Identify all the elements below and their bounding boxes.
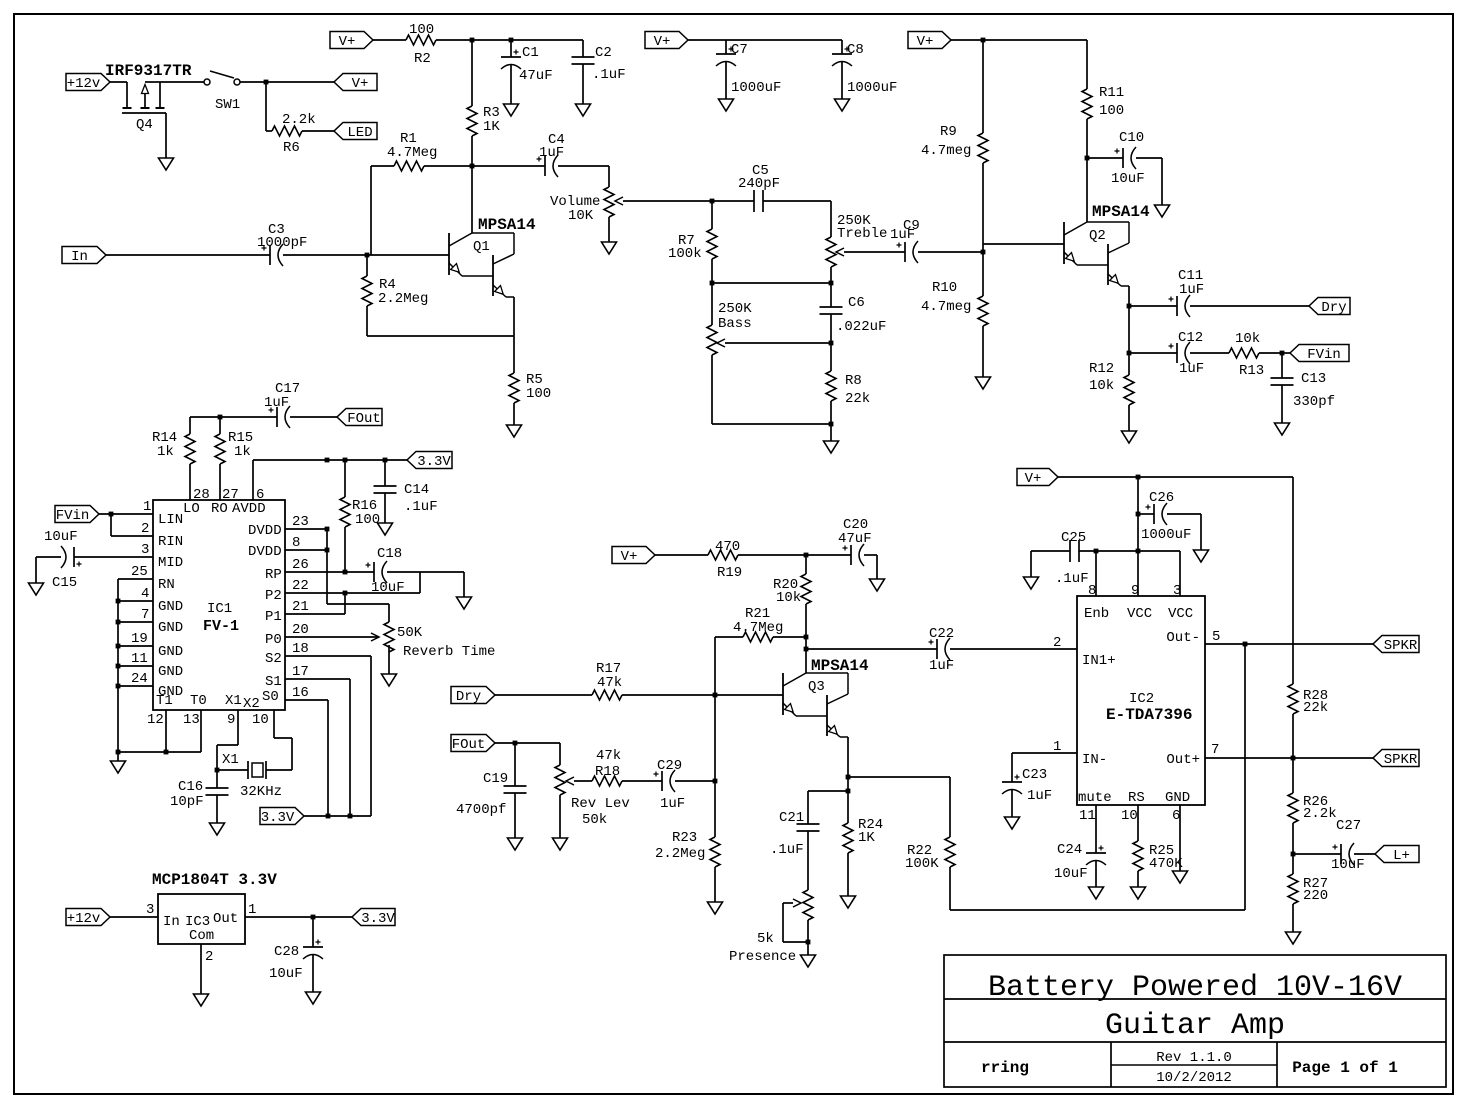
wire <box>118 751 201 753</box>
svg-text:100k: 100k <box>668 246 702 262</box>
net tag In <box>62 247 106 264</box>
wire <box>841 62 843 99</box>
junction <box>1291 756 1296 761</box>
svg-text:3.3V: 3.3V <box>261 810 295 826</box>
wire <box>830 283 832 307</box>
junction <box>1094 549 1099 554</box>
potentiometer Volume <box>604 187 614 217</box>
svg-text:5k: 5k <box>757 931 774 947</box>
wire <box>240 81 334 83</box>
svg-text:1k: 1k <box>157 444 174 460</box>
wire <box>807 920 809 942</box>
junction <box>325 458 330 463</box>
svg-text:4.7Meg: 4.7Meg <box>387 145 437 161</box>
svg-text:100K: 100K <box>905 856 939 872</box>
svg-text:Presence: Presence <box>729 949 796 965</box>
resistor R28 <box>1288 684 1298 714</box>
svg-text:8: 8 <box>1088 583 1096 599</box>
resistor R2 <box>406 35 436 45</box>
wire <box>712 282 831 284</box>
resistor R15 <box>215 434 225 464</box>
svg-text:.1uF: .1uF <box>404 499 438 515</box>
wire <box>830 267 832 283</box>
pin 20 <box>285 636 379 638</box>
svg-text:220: 220 <box>1303 888 1328 904</box>
ground <box>111 761 126 773</box>
svg-text:SPKR: SPKR <box>1384 638 1418 654</box>
svg-text:FV-1: FV-1 <box>203 618 239 635</box>
pin 3 <box>1179 551 1181 596</box>
svg-text:1uF: 1uF <box>890 227 915 243</box>
wire <box>1292 904 1294 932</box>
svg-text:2: 2 <box>141 521 149 537</box>
net tag V+ <box>334 74 377 91</box>
svg-text:MID: MID <box>158 555 183 571</box>
svg-text:8: 8 <box>292 535 300 551</box>
net tag V+ <box>908 32 951 49</box>
svg-text:1000pF: 1000pF <box>257 235 307 251</box>
junction <box>713 779 718 784</box>
junction <box>1280 351 1285 356</box>
svg-text:Q3: Q3 <box>808 679 825 695</box>
junction <box>164 750 169 755</box>
wire <box>1137 871 1139 887</box>
wire <box>1282 352 1298 354</box>
wire <box>714 781 716 837</box>
wire <box>384 460 386 486</box>
svg-text:Com: Com <box>189 928 214 944</box>
pin 27 <box>219 464 221 500</box>
wire <box>245 916 356 918</box>
wire <box>918 251 983 253</box>
svg-text:C25: C25 <box>1061 530 1086 546</box>
net tag FVin <box>1290 345 1349 362</box>
wire <box>371 165 394 167</box>
svg-text:C22: C22 <box>929 626 954 642</box>
wire <box>783 902 793 904</box>
capacitor C3 <box>269 245 271 265</box>
wire <box>876 555 878 579</box>
junction <box>326 814 331 819</box>
junction <box>829 422 834 427</box>
wire <box>608 217 610 242</box>
wire <box>326 529 328 604</box>
capacitor C11 <box>1176 296 1178 316</box>
capacitor C27 <box>1340 844 1342 864</box>
ground <box>1155 205 1170 217</box>
svg-text:+12v: +12v <box>67 76 101 92</box>
wire <box>841 40 843 54</box>
wire <box>495 694 592 696</box>
resistor R11 <box>1082 89 1092 119</box>
junction <box>311 915 316 920</box>
wire <box>1011 753 1013 782</box>
wire <box>274 737 292 739</box>
svg-text:C29: C29 <box>657 758 682 774</box>
svg-text:11: 11 <box>131 651 148 667</box>
wire <box>110 916 158 918</box>
net tag V+ <box>612 547 655 564</box>
svg-text:3: 3 <box>146 902 154 918</box>
wire <box>327 603 389 605</box>
svg-text:4700pf: 4700pf <box>456 802 506 818</box>
pin 26 <box>285 571 374 573</box>
svg-text:Dry: Dry <box>1321 300 1346 316</box>
svg-text:2.2k: 2.2k <box>1303 806 1337 822</box>
potentiometer Treble <box>826 237 836 267</box>
wire <box>582 40 584 57</box>
wire <box>1200 514 1202 550</box>
ground <box>508 838 523 850</box>
junction <box>383 458 388 463</box>
svg-text:9: 9 <box>227 712 235 728</box>
wire <box>608 166 610 187</box>
transistor Q3 <box>782 673 784 715</box>
junction <box>218 415 223 420</box>
wire <box>1190 305 1309 307</box>
wire <box>725 342 831 344</box>
svg-text:C23: C23 <box>1022 767 1047 783</box>
wire <box>74 556 153 558</box>
svg-text:9: 9 <box>1131 583 1139 599</box>
wire <box>688 39 842 41</box>
wire <box>513 336 515 373</box>
ground <box>576 104 591 116</box>
svg-text:IN1+: IN1+ <box>1082 653 1116 669</box>
junction <box>804 647 809 652</box>
svg-text:10k: 10k <box>776 590 801 606</box>
svg-text:rring: rring <box>981 1059 1029 1077</box>
junction <box>325 527 330 532</box>
svg-text:L+: L+ <box>1393 848 1410 864</box>
junction <box>116 664 121 669</box>
junction <box>215 768 220 773</box>
wire <box>806 554 851 556</box>
junction <box>846 789 851 794</box>
ground <box>824 441 839 453</box>
wire <box>291 738 293 770</box>
wire <box>1086 119 1088 158</box>
svg-text:VCC: VCC <box>1168 606 1193 622</box>
wire <box>1129 305 1177 307</box>
svg-text:Q4: Q4 <box>136 117 153 133</box>
svg-text:3: 3 <box>141 542 149 558</box>
wire <box>582 64 584 104</box>
net tag +12v <box>66 909 110 926</box>
ground <box>210 823 225 835</box>
wire <box>714 637 716 781</box>
wire <box>290 416 337 418</box>
svg-text:Q2: Q2 <box>1089 228 1106 244</box>
svg-text:Out: Out <box>213 911 238 927</box>
svg-text:.1uF: .1uF <box>1055 571 1089 587</box>
wire <box>725 40 727 54</box>
svg-text:V+: V+ <box>654 34 671 50</box>
wire <box>1095 861 1097 887</box>
svg-text:IN-: IN- <box>1082 752 1107 768</box>
pin 17 <box>285 678 350 680</box>
wire <box>805 604 807 637</box>
wire <box>1012 752 1077 754</box>
svg-text:4.7meg: 4.7meg <box>921 299 971 315</box>
svg-text:7: 7 <box>1211 742 1219 758</box>
pin 28 <box>189 464 191 500</box>
svg-text:470: 470 <box>715 539 740 555</box>
svg-text:X1: X1 <box>225 693 242 709</box>
svg-text:Treble: Treble <box>837 226 887 242</box>
svg-text:LO: LO <box>183 501 200 517</box>
svg-text:Reverb Time: Reverb Time <box>403 644 495 660</box>
svg-text:3: 3 <box>1173 583 1181 599</box>
junction <box>116 750 121 755</box>
wire <box>1167 513 1201 515</box>
svg-text:4.7Meg: 4.7Meg <box>733 620 783 636</box>
wire <box>219 417 221 434</box>
net tag SPKR <box>1373 636 1419 653</box>
svg-text:2.2Meg: 2.2Meg <box>378 291 428 307</box>
svg-text:16: 16 <box>292 685 309 701</box>
wire <box>805 637 807 673</box>
wire <box>344 593 346 614</box>
resistor R18 <box>592 776 622 786</box>
net tag 3.3V <box>260 808 304 825</box>
net tag FVin <box>55 506 99 523</box>
junction <box>116 644 121 649</box>
ground <box>719 99 734 111</box>
pin 23 <box>285 528 327 530</box>
wire <box>1136 157 1162 159</box>
wire <box>623 200 711 202</box>
wire <box>495 742 560 744</box>
wire <box>118 685 153 687</box>
svg-text:R13: R13 <box>1239 363 1264 379</box>
wire <box>1161 158 1163 205</box>
capacitor C20 <box>850 545 852 565</box>
resistor R5 <box>509 373 519 403</box>
junction <box>470 164 475 169</box>
svg-text:MPSA14: MPSA14 <box>1092 203 1150 221</box>
resistor R23 <box>710 837 720 867</box>
wire <box>559 743 561 765</box>
pin 12 <box>165 710 167 752</box>
wire <box>266 130 272 132</box>
svg-text:21: 21 <box>292 599 309 615</box>
wire <box>1128 353 1130 375</box>
wire <box>349 679 351 816</box>
wire <box>712 423 831 425</box>
wire <box>1030 551 1032 577</box>
junction <box>470 38 475 43</box>
svg-text:3.3V: 3.3V <box>417 454 451 470</box>
svg-text:T0: T0 <box>190 693 207 709</box>
svg-text:GND: GND <box>158 664 183 680</box>
svg-text:50K: 50K <box>397 625 423 641</box>
pin 22 <box>285 592 420 594</box>
resistor R7 <box>707 229 717 259</box>
svg-text:1uF: 1uF <box>1179 361 1204 377</box>
wire <box>655 554 708 556</box>
ground <box>507 425 522 437</box>
wire <box>111 535 153 537</box>
junction <box>1127 351 1132 356</box>
resistor R27 <box>1288 874 1298 904</box>
svg-text:R18: R18 <box>595 764 620 780</box>
svg-text:R6: R6 <box>283 140 300 156</box>
wire <box>302 130 334 132</box>
junction <box>804 635 809 640</box>
svg-text:V+: V+ <box>917 34 934 50</box>
svg-text:47k: 47k <box>597 675 622 691</box>
svg-text:.1uF: .1uF <box>770 842 804 858</box>
svg-text:32KHz: 32KHz <box>240 784 282 800</box>
svg-text:4: 4 <box>141 586 149 602</box>
ground <box>602 242 617 254</box>
svg-text:10uF: 10uF <box>1331 857 1365 873</box>
svg-text:10uF: 10uF <box>1111 171 1145 187</box>
wire <box>622 694 783 696</box>
svg-text:1uF: 1uF <box>1179 282 1204 298</box>
svg-text:23: 23 <box>292 514 309 530</box>
svg-text:C15: C15 <box>52 575 77 591</box>
wire <box>370 656 372 816</box>
ground <box>504 104 519 116</box>
wire <box>1244 644 1246 910</box>
svg-text:S0: S0 <box>262 689 279 705</box>
ground <box>835 99 850 111</box>
wire <box>1292 854 1294 874</box>
svg-text:SPKR: SPKR <box>1384 752 1418 768</box>
wire <box>782 903 784 942</box>
wire <box>118 645 153 647</box>
wire <box>1354 853 1375 855</box>
svg-text:P2: P2 <box>265 588 282 604</box>
svg-text:24: 24 <box>131 671 148 687</box>
svg-text:10k: 10k <box>1089 378 1114 394</box>
junction <box>348 814 353 819</box>
svg-text:1000uF: 1000uF <box>731 80 781 96</box>
resistor R21 <box>743 632 773 642</box>
svg-text:2: 2 <box>205 949 213 965</box>
svg-text:1uF: 1uF <box>929 658 954 674</box>
svg-text:330pf: 330pf <box>1293 394 1335 410</box>
capacitor C28 <box>303 946 323 948</box>
capacitor C22 <box>936 639 938 659</box>
wire <box>763 200 831 202</box>
svg-text:In: In <box>71 249 88 265</box>
svg-text:R12: R12 <box>1089 361 1114 377</box>
ground <box>1089 887 1104 899</box>
wire <box>370 166 372 255</box>
wire <box>35 557 37 583</box>
wire <box>189 417 191 434</box>
wire <box>1128 306 1130 353</box>
IC U1 FV-1 box <box>153 500 285 710</box>
IC U2 E-TDA7396 box <box>1077 596 1205 805</box>
svg-text:C16: C16 <box>178 779 203 795</box>
wire <box>344 527 346 572</box>
wire <box>711 259 713 283</box>
resistor R16 <box>340 497 350 527</box>
svg-text:Q1: Q1 <box>473 239 490 255</box>
wire <box>216 795 218 823</box>
wire <box>1205 757 1373 759</box>
junction <box>325 548 330 553</box>
wire <box>773 636 806 638</box>
capacitor C19 <box>504 785 527 787</box>
wire <box>1079 550 1180 552</box>
svg-text:1uF: 1uF <box>1027 788 1052 804</box>
svg-text:SW1: SW1 <box>215 97 240 113</box>
wire <box>118 621 153 623</box>
pin 9 <box>1137 551 1139 596</box>
pin 9 <box>237 710 239 745</box>
svg-text:1000uF: 1000uF <box>1141 527 1191 543</box>
wire <box>384 493 386 523</box>
svg-text:1uF: 1uF <box>264 395 289 411</box>
svg-text:C12: C12 <box>1178 330 1203 346</box>
transistor Q4 <box>126 82 128 108</box>
junction <box>365 253 370 258</box>
wire <box>847 737 849 791</box>
capacitor C5 <box>753 190 755 212</box>
svg-text:1000uF: 1000uF <box>847 80 897 96</box>
svg-text:Out-: Out- <box>1166 630 1200 646</box>
resistor R10 <box>978 296 988 326</box>
resistor R26 <box>1288 793 1298 823</box>
svg-text:22k: 22k <box>845 391 870 407</box>
resistor R19 <box>708 550 738 560</box>
capacitor C12 <box>1176 343 1178 363</box>
svg-text:240pF: 240pF <box>738 176 780 192</box>
capacitor C24 <box>1086 852 1106 854</box>
svg-text:S2: S2 <box>265 651 282 667</box>
svg-text:1: 1 <box>143 499 151 515</box>
svg-text:GND: GND <box>158 644 183 660</box>
svg-text:GND: GND <box>1165 790 1190 806</box>
resistor R1 <box>394 161 424 171</box>
wire <box>982 163 984 296</box>
svg-text:Battery Powered 10V-16V: Battery Powered 10V-16V <box>988 971 1402 1005</box>
resistor R6 <box>272 126 302 136</box>
svg-text:IC2: IC2 <box>1129 691 1154 707</box>
wire <box>388 604 390 622</box>
wire <box>808 790 848 792</box>
svg-text:R9: R9 <box>940 124 957 140</box>
svg-text:250K: 250K <box>718 301 752 317</box>
svg-text:R8: R8 <box>845 373 862 389</box>
svg-text:6: 6 <box>1172 808 1180 824</box>
junction <box>109 512 114 517</box>
svg-text:T1: T1 <box>156 693 173 709</box>
junction <box>509 38 514 43</box>
svg-text:Rev 1.1.0: Rev 1.1.0 <box>1156 1050 1232 1066</box>
wire <box>110 514 112 536</box>
wire <box>711 355 713 424</box>
wire <box>1292 823 1294 854</box>
ground <box>382 674 397 686</box>
transistor Q1 <box>448 233 450 275</box>
ground <box>378 523 393 535</box>
wire <box>327 700 329 816</box>
wire <box>807 942 809 955</box>
svg-text:C14: C14 <box>404 482 429 498</box>
junction <box>713 693 718 698</box>
ground <box>1131 887 1146 899</box>
svg-text:100: 100 <box>1099 103 1124 119</box>
svg-text:18: 18 <box>292 641 309 657</box>
title block frame <box>944 955 1446 1087</box>
capacitor C14 <box>374 485 397 487</box>
